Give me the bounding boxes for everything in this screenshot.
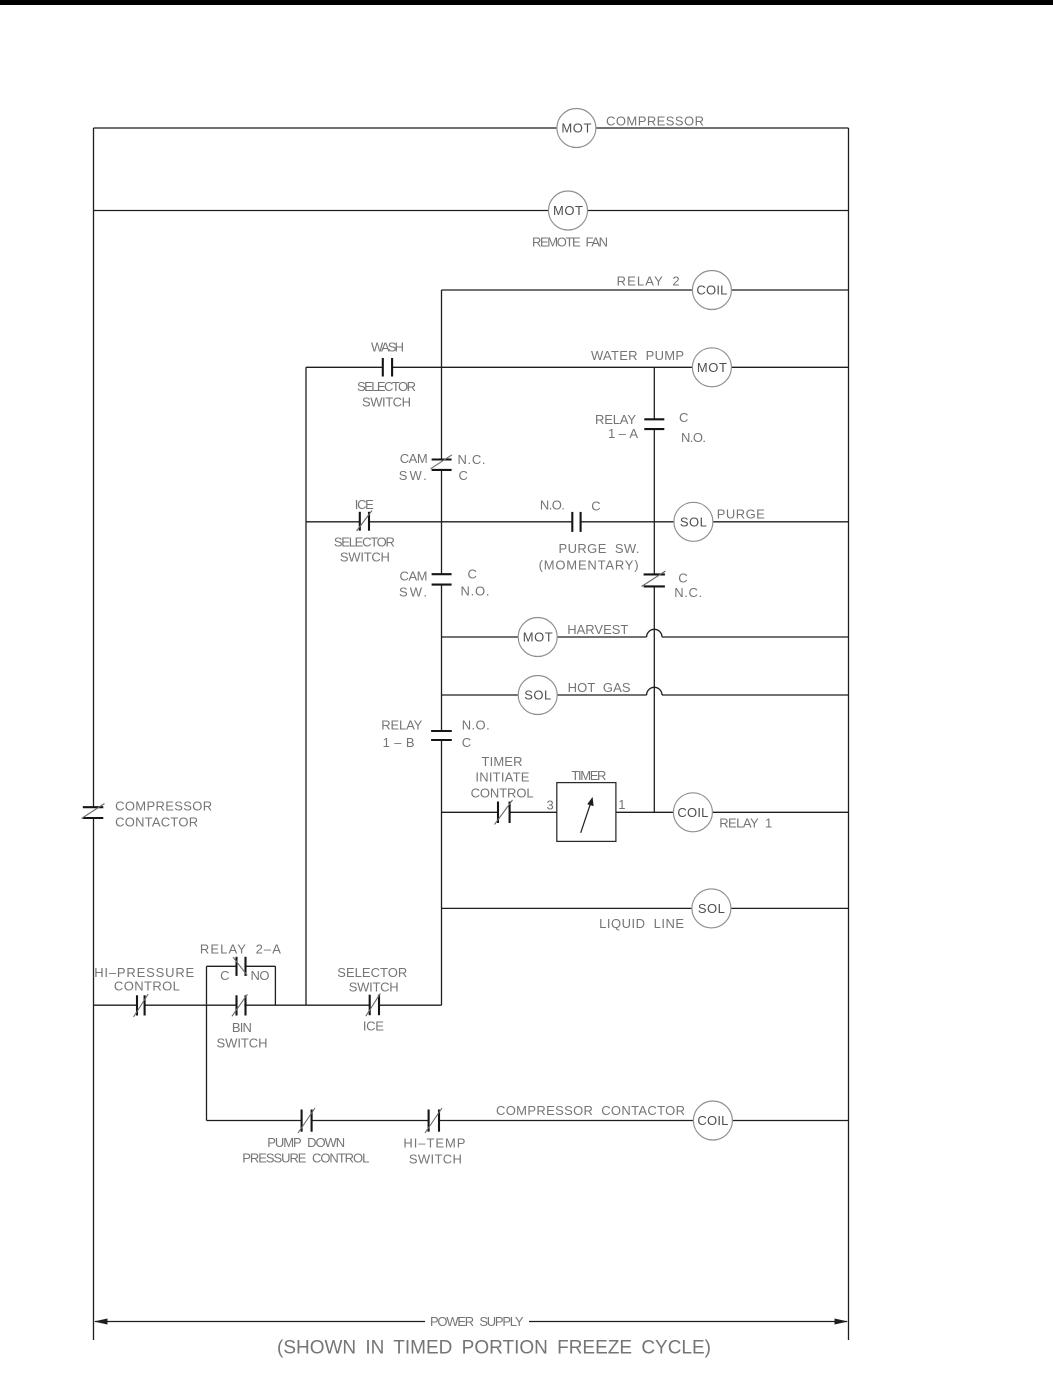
svg-text:ICE: ICE [355,497,374,512]
wire rung1 right [596,127,849,129]
power supply dimension line right [529,1321,847,1323]
label RELAY 1-B [381,717,422,750]
svg-text:TIMER: TIMER [482,754,523,769]
label N.O. / C purge sw [540,497,601,513]
svg-text:SWITCH: SWITCH [362,395,411,410]
svg-text:MOT: MOT [553,203,583,218]
svg-text:COMPRESSOR: COMPRESSOR [115,798,212,813]
contact compressor contactor N.C. on L1 [82,804,105,819]
svg-text:SELECTOR: SELECTOR [357,379,416,394]
svg-text:REMOTE FAN: REMOTE FAN [532,235,608,250]
svg-text:WATER PUMP: WATER PUMP [591,348,684,363]
contact ice selector switch [357,511,373,532]
svg-text:SOL: SOL [524,688,551,703]
contact wash selector switch [383,358,392,377]
wire rung10 seg1 [94,1004,138,1006]
vertical bus V3 x=654.3 [653,367,655,812]
svg-text:N.C.: N.C. [458,452,486,467]
contact cam switch N.O. [432,574,452,584]
label HI-PRESSURE CONTROL [94,965,194,994]
svg-text:C: C [468,567,477,582]
label N.O. / C relay 1-B [462,717,490,750]
svg-text:1: 1 [618,797,625,812]
coil K1 relay 1 [673,793,712,832]
svg-text:RELAY 2–A: RELAY 2–A [200,942,281,957]
svg-text:HOT GAS: HOT GAS [568,680,631,695]
svg-text:C: C [459,468,468,483]
wire rung10 seg4 [379,1004,442,1006]
svg-text:C: C [462,735,471,750]
wire rung4 left [306,366,383,368]
wire rung8 right [712,811,849,813]
solenoid liquid line [692,889,731,928]
wire rung10 seg3 [244,1004,369,1006]
contact cam switch N.C. [431,455,453,470]
wire rung11 seg3 [439,1120,694,1122]
wire rung11 seg2 [312,1120,429,1122]
wire rung4 mid [392,366,692,368]
wire rung11 seg1 [207,1120,302,1122]
svg-text:MOT: MOT [561,121,591,136]
wire rung5 left [306,521,360,523]
vertical bus V1 x=441.5 [441,290,443,1005]
svg-text:SOL: SOL [680,514,707,529]
wire hop hotgas over V3 [647,687,662,695]
coil K2 relay 2 [692,271,731,310]
contact bin switch [232,994,248,1016]
contact pump down pressure control [298,1108,315,1133]
solenoid purge [674,502,713,541]
svg-text:WASH: WASH [371,340,404,355]
svg-text:N.O.: N.O. [462,717,490,732]
label CAM SW. lower [399,569,428,600]
solenoid hot gas [518,676,557,715]
wire rung7 hotgas mid [557,694,647,696]
label HI-TEMP SWITCH [403,1136,465,1167]
contact hi-pressure control [134,994,149,1017]
svg-text:BIN: BIN [232,1020,252,1035]
label C / NO relay 2-A [220,968,269,983]
svg-text:MOT: MOT [523,630,553,645]
svg-text:C: C [591,499,600,514]
power supply dimension line left [95,1321,425,1323]
wire rung10 seg2 [145,1004,236,1006]
contact relay 1-A [644,419,664,429]
label C / N.O. cam lower [461,567,490,599]
wire rung6 harvest left [442,636,519,638]
svg-text:CAM: CAM [400,451,428,466]
svg-text:COMPRESSOR CONTACTOR: COMPRESSOR CONTACTOR [496,1103,685,1118]
wire rung5 mid2 [581,521,675,523]
svg-text:SWITCH: SWITCH [340,550,390,565]
wire rung7 hotgas right [662,694,849,696]
wire rung5 right [713,521,849,523]
motor M3 water pump [692,348,731,387]
wire rung8 timer left [442,811,499,813]
label RELAY 1-A [595,412,638,441]
svg-text:SELECTOR: SELECTOR [337,965,407,980]
svg-text:CONTROL: CONTROL [114,979,180,994]
coil compressor contactor [693,1101,732,1140]
svg-text:C: C [678,570,687,585]
svg-text:CAM: CAM [400,569,428,584]
left power rail L1 [93,128,95,1340]
svg-text:(SHOWN IN TIMED PORTION FREEZE: (SHOWN IN TIMED PORTION FREEZE CYCLE) [277,1338,711,1359]
contact timer initiate control [495,800,513,825]
label SELECTOR SWITCH ICE [337,965,407,1034]
svg-text:SW.: SW. [399,468,427,483]
wire rung8 timer mid [510,811,557,813]
svg-text:C: C [220,968,229,983]
svg-text:(MOMENTARY): (MOMENTARY) [539,558,639,573]
motor M1 compressor [557,109,596,148]
svg-text:SELECTOR: SELECTOR [334,535,395,550]
svg-text:PURGE SW.: PURGE SW. [559,541,640,556]
wire rung6 harvest right [662,636,849,638]
label C / N.O. [679,410,706,445]
label PUMP DOWN PRESSURE CONTROL [242,1135,369,1166]
motor M4 harvest [518,618,557,657]
wire rung4 right [731,366,848,368]
wire rung5 mid1 [369,521,572,523]
wire rung3 left [442,289,693,291]
svg-text:N.C.: N.C. [674,585,702,600]
svg-text:SW.: SW. [399,585,427,600]
contact purge switch momentary [572,512,580,532]
svg-text:RELAY: RELAY [595,412,636,427]
svg-text:INITIATE: INITIATE [475,770,529,785]
svg-text:N.O.: N.O. [461,584,490,599]
svg-text:HI–TEMP: HI–TEMP [403,1136,465,1151]
svg-text:CONTACTOR: CONTACTOR [115,815,198,830]
wire bypass branch left vertical [206,966,208,1005]
svg-text:COIL: COIL [697,1113,728,1128]
svg-text:3: 3 [547,798,554,813]
label BIN SWITCH [217,1020,268,1050]
wire bypass branch top right [246,965,276,967]
right power rail L2 [848,128,850,1340]
arrowhead right [835,1319,849,1325]
svg-text:1–B: 1–B [383,735,415,750]
svg-text:1–A: 1–A [608,426,638,441]
svg-text:RELAY 1: RELAY 1 [719,816,772,831]
wire bypass branch top left [207,965,237,967]
svg-text:POWER SUPPLY: POWER SUPPLY [430,1314,524,1329]
wire V4 x=206.5 down [206,1005,208,1120]
svg-text:SOL: SOL [698,901,725,916]
svg-text:PUMP DOWN: PUMP DOWN [267,1135,345,1150]
wire rung6 harvest mid [557,636,647,638]
svg-text:N.O.: N.O. [681,430,706,445]
svg-text:PURGE: PURGE [717,507,765,522]
svg-text:TIMER: TIMER [571,768,606,783]
label COMPRESSOR CONTACTOR left [115,798,212,829]
wire rung11 right [732,1120,849,1122]
svg-text:N.O.: N.O. [540,497,565,512]
label N.C. / C cam [458,452,486,483]
svg-text:PRESSURE CONTROL: PRESSURE CONTROL [242,1151,369,1166]
wire rung3 right [732,289,849,291]
label TIMER INITIATE CONTROL [471,754,534,800]
svg-text:CONTROL: CONTROL [471,786,534,801]
svg-text:SWITCH: SWITCH [217,1036,268,1051]
contact relay1 N.C. on V3 [642,571,666,587]
wire rung7 hotgas left [442,694,519,696]
label C / N.C. on V3 [674,570,702,600]
svg-text:NO: NO [251,968,270,983]
svg-text:HARVEST: HARVEST [567,622,628,637]
wire bypass branch right vertical [274,966,276,1005]
wire rung1 left [94,127,558,129]
contact selector switch ice position [366,993,381,1016]
timer box U1 [557,783,616,842]
wire rung2 right [588,210,849,212]
svg-text:COMPRESSOR: COMPRESSOR [606,114,704,129]
vertical bus V2 x=306 [305,367,307,1005]
label CAM SW. upper [399,451,428,483]
svg-text:COIL: COIL [677,805,708,820]
contact hi-temp switch [425,1108,442,1133]
svg-text:SWITCH: SWITCH [409,1152,462,1167]
motor M2 remote fan [549,191,588,230]
contact relay 1-B on V1 [431,731,452,740]
svg-text:COIL: COIL [696,283,727,298]
svg-text:C: C [679,410,688,425]
svg-text:RELAY: RELAY [381,717,422,732]
arrowhead left [94,1319,108,1325]
wire rung9 liquid left [442,907,692,909]
wire rung2 left [94,210,549,212]
contact relay 2-A [233,957,247,976]
svg-text:ICE: ICE [363,1019,384,1034]
wire hop harvest over V3 [647,629,662,637]
wire rung9 liquid right [731,907,849,909]
svg-text:MOT: MOT [697,360,727,375]
wire rung8 timer box to coil [616,811,674,813]
svg-text:LIQUID LINE: LIQUID LINE [599,916,684,931]
svg-text:SWITCH: SWITCH [349,979,399,994]
